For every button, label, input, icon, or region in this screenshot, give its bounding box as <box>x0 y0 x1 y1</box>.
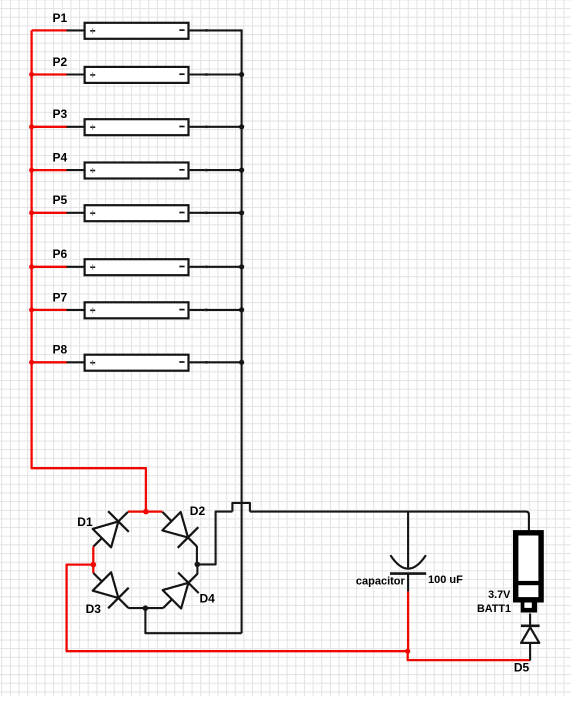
wire P7 to black bus <box>206 309 241 311</box>
diode D4 <box>163 573 199 609</box>
svg-text:P8: P8 <box>53 343 68 357</box>
wire D5 cathode to battery <box>529 614 531 626</box>
wire P2 to black bus <box>206 73 241 75</box>
capacitor C1 100uF <box>390 555 426 573</box>
wire red stub P7 <box>32 309 67 311</box>
wire P6 to black bus <box>206 266 241 268</box>
wire top node right <box>146 510 163 512</box>
wire top node left <box>128 510 146 512</box>
wire P1 to black bus <box>206 29 241 31</box>
piezo P3 <box>67 119 208 135</box>
svg-text:P5: P5 <box>53 193 68 207</box>
junction red bus P4 <box>29 168 34 173</box>
svg-text:D2: D2 <box>190 504 206 518</box>
wire D5 anode <box>529 643 531 661</box>
junction black bus P5 <box>239 210 244 215</box>
wire red stub P1 <box>32 29 67 31</box>
wire P3 to black bus <box>206 126 241 128</box>
junction bottom rail <box>405 649 410 654</box>
svg-text:P4: P4 <box>53 151 68 165</box>
svg-text:D1: D1 <box>77 515 93 529</box>
junction black bus P6 <box>239 264 244 269</box>
diode D3 <box>93 572 129 608</box>
node left junction <box>91 562 97 568</box>
wire D3 cathode to bottom node <box>128 607 145 609</box>
wire capacitor bottom red <box>407 591 409 651</box>
svg-text:BATT1: BATT1 <box>477 603 511 615</box>
wire P4 to black bus <box>206 169 241 171</box>
wire right node to top run <box>197 512 232 565</box>
node bottom junction <box>143 605 149 611</box>
wire red stub P8 <box>32 361 67 363</box>
junction red bus P8 <box>29 360 34 365</box>
junction red bus P7 <box>29 307 34 312</box>
battery BATT1 <box>516 533 541 613</box>
diode D1 <box>93 511 129 547</box>
wire red stub P6 <box>32 266 67 268</box>
svg-text:capacitor: capacitor <box>356 575 406 587</box>
svg-text:P1: P1 <box>53 11 68 25</box>
svg-text:D4: D4 <box>200 591 216 605</box>
piezo P2 <box>67 67 208 83</box>
junction red bus P6 <box>29 264 34 269</box>
junction black bus P7 <box>239 307 244 312</box>
junction red bus P2 <box>29 72 34 77</box>
wire bridge bottom to bus <box>145 608 241 633</box>
wire top run to battery <box>250 512 529 531</box>
junction black bus P4 <box>239 168 244 173</box>
wire red stub P3 <box>32 126 67 128</box>
wire D4 cathode to right node <box>196 564 198 574</box>
piezo P5 <box>67 205 208 221</box>
junction red bus P5 <box>29 210 34 215</box>
piezo P1 <box>67 23 208 39</box>
piezo P6 <box>67 259 208 275</box>
wire capacitor bottom black <box>407 574 409 592</box>
node top AC junction <box>143 509 149 515</box>
piezo P8 <box>67 355 208 371</box>
junction black bus P3 <box>239 124 244 129</box>
diode D2 <box>162 512 198 548</box>
wire D1 anode to left node <box>92 547 94 565</box>
wire red bus left (P+ net) <box>32 30 146 511</box>
svg-text:P7: P7 <box>53 290 68 304</box>
diode D5 <box>521 626 540 643</box>
wire red stub P2 <box>32 73 67 75</box>
wire black bus right (P- net) <box>241 29 243 633</box>
svg-text:100 uF: 100 uF <box>428 574 463 586</box>
junction red bus P3 <box>29 124 34 129</box>
svg-text:P3: P3 <box>53 107 68 121</box>
junction black bus P2 <box>239 72 244 77</box>
junction black bus P8 <box>239 360 244 365</box>
wire P8 to black bus <box>206 361 241 363</box>
wire left node down <box>92 565 94 573</box>
wire red stub P4 <box>32 169 67 171</box>
svg-text:P6: P6 <box>53 247 68 261</box>
svg-text:P2: P2 <box>53 55 68 69</box>
piezo P4 <box>67 163 208 179</box>
node right junction <box>195 562 201 568</box>
wire rail jog to D5 <box>408 651 530 660</box>
wire capacitor top <box>407 512 409 568</box>
wire bottom node to D4 <box>145 607 163 609</box>
piezo P7 <box>67 302 208 318</box>
svg-text:3.7V: 3.7V <box>488 589 511 601</box>
wire P5 to black bus <box>206 212 241 214</box>
wire red stub P5 <box>32 212 67 214</box>
wire left node to bottom rail <box>67 565 408 652</box>
wire D2 cathode to right node <box>196 546 198 564</box>
wire hop over bus <box>232 503 250 512</box>
svg-text:D3: D3 <box>86 602 102 616</box>
svg-text:D5: D5 <box>514 661 530 675</box>
